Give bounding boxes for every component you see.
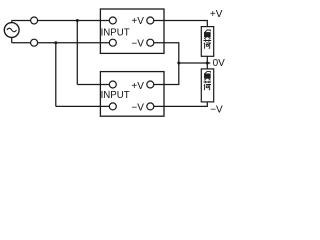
junction dot J2 bottom wire tap	[54, 41, 57, 44]
wire AC top stub	[11, 21, 13, 23]
svg-text:INPUT: INPUT	[101, 28, 130, 39]
terminal PS2 IN+	[109, 81, 116, 88]
wire tap1 horizontal to PS2 IN+	[77, 84, 113, 86]
terminal PS1 -V	[147, 39, 154, 46]
load RL2 box	[201, 69, 213, 102]
wire tap1 vertical to PS2 IN+	[76, 21, 78, 85]
svg-text:0V: 0V	[213, 58, 226, 69]
terminal PS2 +V	[147, 81, 154, 88]
terminal PS1 IN+	[109, 17, 116, 24]
load RL1 kanji fuka	[204, 30, 212, 49]
load RL2 kanji fuka	[204, 71, 212, 90]
svg-text:+V: +V	[131, 81, 144, 92]
wire load1 bottom stub	[206, 56, 208, 63]
junction dot J3 0V rail riser	[177, 62, 180, 65]
svg-text:−V: −V	[131, 38, 144, 49]
junction dot J1 top wire tap	[76, 19, 79, 22]
wire 0V rail	[179, 62, 211, 64]
svg-text:+V: +V	[210, 9, 223, 20]
terminal PS1 IN-	[109, 39, 116, 46]
load RL1 box	[201, 27, 213, 57]
AC source G1	[4, 23, 19, 38]
wire tap2 vertical to PS2 IN-	[55, 43, 57, 107]
power supply unit PS1 box	[100, 9, 164, 53]
wire AC bottom stub	[11, 37, 13, 42]
svg-text:−V: −V	[210, 104, 223, 115]
svg-text:INPUT: INPUT	[101, 90, 130, 101]
svg-text:−V: −V	[131, 103, 144, 114]
junction dot J4 0V rail load stubs	[206, 62, 209, 65]
wire PS1 -V output down to 0V rail	[150, 43, 179, 63]
terminal AC top	[31, 17, 38, 24]
wire tap2 horizontal to PS2 IN-	[56, 105, 113, 107]
wire bottom line from AC to PS1 IN-	[12, 42, 113, 44]
svg-text:+V: +V	[131, 16, 144, 27]
wire top line from AC to PS1 IN+	[12, 20, 113, 22]
power supply unit PS2 box	[100, 72, 164, 117]
terminal PS2 -V	[147, 103, 154, 110]
wire PS2 -V output to load2 bottom	[150, 102, 207, 107]
wire PS2 +V output up to 0V rail	[150, 63, 179, 85]
wire load2 top stub	[206, 63, 208, 69]
terminal PS1 +V	[147, 17, 154, 24]
AC sine symbol	[7, 28, 17, 32]
terminal AC bottom	[31, 39, 38, 46]
terminal PS2 IN-	[109, 103, 116, 110]
wire PS1 +V output to load1 top	[150, 21, 207, 27]
